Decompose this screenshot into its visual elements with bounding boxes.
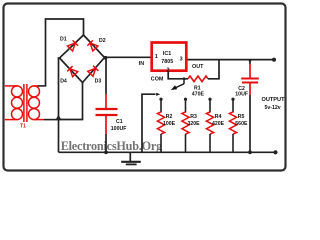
wire secondary bottom lead xyxy=(44,119,59,121)
svg-text:470E: 470E xyxy=(192,92,205,98)
svg-text:100UF: 100UF xyxy=(111,126,127,132)
node switch contact R4 xyxy=(208,98,211,101)
svg-text:320E: 320E xyxy=(188,121,201,127)
capacitor C1 xyxy=(96,58,118,153)
wire COM from pin2 xyxy=(168,71,188,79)
svg-text:D3: D3 xyxy=(95,79,102,85)
svg-text:IN: IN xyxy=(139,61,144,67)
svg-text:5v-12v: 5v-12v xyxy=(265,105,281,111)
svg-text:100E: 100E xyxy=(163,121,176,127)
node C1 tap xyxy=(104,56,108,60)
resistor R1 xyxy=(188,76,208,82)
svg-text:OUTPUT: OUTPUT xyxy=(262,97,286,103)
svg-text:COM: COM xyxy=(151,77,164,83)
resistor R2 xyxy=(157,99,164,152)
bridge diamond wires xyxy=(60,35,105,83)
diode D1 xyxy=(67,40,78,51)
svg-text:R3: R3 xyxy=(190,114,197,120)
svg-text:IC1: IC1 xyxy=(163,51,171,57)
node switch contact R3 xyxy=(184,98,187,101)
node switch contact R5 xyxy=(231,98,234,101)
wire switch pole from ground xyxy=(142,94,156,152)
node output plus terminal xyxy=(272,58,276,62)
op-amp IC1 7805 regulator box xyxy=(152,43,187,71)
border frame xyxy=(4,4,286,171)
wire R1 to OUT rail xyxy=(208,60,219,79)
wire OUT rail (IC pin3 to output terminal) xyxy=(186,59,274,61)
svg-text:10UF: 10UF xyxy=(235,91,248,97)
capacitor C2 xyxy=(241,60,258,153)
resistor R5 xyxy=(229,99,236,152)
diode D2 xyxy=(87,40,98,51)
switch pole arrowhead xyxy=(156,93,160,96)
svg-text:D4: D4 xyxy=(60,79,67,85)
svg-text:C1: C1 xyxy=(116,119,123,125)
svg-text:OUT: OUT xyxy=(192,64,204,70)
transformer T1 xyxy=(5,84,44,122)
diode D4 xyxy=(67,66,78,77)
svg-text:420E: 420E xyxy=(212,121,225,127)
wire ground rail xyxy=(59,151,276,153)
svg-text:D1: D1 xyxy=(60,37,67,43)
svg-text:R2: R2 xyxy=(166,114,173,120)
ground xyxy=(121,152,141,164)
node junction secondary-bottom xyxy=(56,115,62,120)
svg-text:R5: R5 xyxy=(238,114,245,120)
node switch contact R2 xyxy=(159,98,162,101)
switch wiper arrow xyxy=(171,79,184,90)
resistor R3 xyxy=(182,99,189,152)
node C2 ground xyxy=(248,150,252,154)
svg-text:1: 1 xyxy=(155,54,158,60)
wire secondary top lead xyxy=(38,85,46,87)
wire bridge left node to ground rail xyxy=(59,58,60,152)
diode D3 xyxy=(88,66,99,77)
svg-text:7805: 7805 xyxy=(161,59,173,65)
svg-text:560E: 560E xyxy=(235,121,248,127)
wire top loop xyxy=(46,19,84,86)
wire bridge bottom node down-left xyxy=(59,83,83,120)
wire IN rail (bridge right node to IC pin1) xyxy=(105,56,152,58)
node C1 ground xyxy=(104,150,108,154)
node wiper pivot xyxy=(183,77,186,80)
node output minus terminal xyxy=(273,150,277,154)
svg-text:D2: D2 xyxy=(99,38,106,44)
svg-text:ElectronicsHub.Org: ElectronicsHub.Org xyxy=(61,139,163,153)
svg-text:R4: R4 xyxy=(215,114,222,120)
resistor R4 xyxy=(206,99,213,152)
svg-text:3: 3 xyxy=(180,57,183,63)
svg-text:R1: R1 xyxy=(194,85,201,91)
svg-text:T1: T1 xyxy=(20,124,26,130)
node C2 tap xyxy=(249,59,252,62)
